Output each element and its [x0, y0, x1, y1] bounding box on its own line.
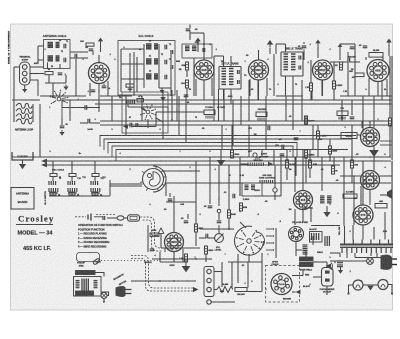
tc wires	[110, 183, 143, 185]
osc coil bank L10	[68, 181, 75, 185]
cap C14	[184, 221, 189, 223]
svg-text:MODEL 34 • 6 TUBE SUPERHET: MODEL 34 • 6 TUBE SUPERHET	[8, 30, 11, 64]
cap C12	[350, 117, 355, 119]
wires V2	[195, 79, 197, 96]
arrow cable end	[193, 287, 199, 292]
label yellow	[339, 227, 341, 236]
xfmr box T12	[242, 183, 262, 196]
rf coil L4	[146, 59, 152, 64]
bus y157	[12, 156, 391, 158]
tube V6 6B8	[361, 128, 380, 147]
osc bank boxes	[50, 192, 56, 195]
if2 trimmers	[299, 56, 301, 60]
ant coil wires	[38, 45, 44, 47]
caps cluster mid	[168, 199, 173, 201]
antenna coil L1	[48, 43, 54, 48]
bus y161	[42, 160, 391, 162]
rf coil L3	[146, 44, 152, 49]
cap C13b	[208, 206, 213, 208]
stage vertical wires	[39, 104, 41, 157]
pilot X1	[367, 258, 374, 265]
band switch S1	[140, 104, 156, 120]
ground rf	[161, 88, 163, 90]
rf coil wires	[143, 44, 145, 88]
tube V1 6A7	[89, 63, 110, 84]
tube V3 6SK7	[249, 60, 269, 80]
lamp I1	[353, 280, 363, 290]
res R26	[340, 62, 343, 70]
tone caps	[320, 196, 325, 203]
res R19	[343, 194, 357, 198]
antenna A2	[195, 38, 200, 45]
pickup base outline	[77, 253, 100, 262]
capacitor C3	[89, 49, 94, 51]
padder T6	[256, 112, 267, 117]
plug wires	[292, 275, 303, 277]
ground C15	[340, 267, 342, 270]
antenna A1	[98, 38, 103, 45]
bus y125	[100, 124, 392, 126]
light socket	[253, 153, 257, 157]
wires power	[330, 260, 367, 262]
fs wires	[228, 228, 234, 230]
capacitor C8	[363, 46, 368, 48]
wires S1	[147, 119, 149, 128]
label motor board	[76, 271, 96, 275]
osc coil box	[182, 44, 212, 58]
ground at terminal strip	[24, 85, 26, 89]
resistor R1	[45, 72, 53, 75]
wires outlet	[326, 262, 328, 268]
field coil	[303, 245, 308, 254]
wire y281	[131, 280, 196, 282]
wires V1	[89, 83, 91, 96]
bus y104	[95, 103, 392, 105]
band switch S3	[50, 90, 69, 105]
function switch S2	[235, 226, 265, 255]
wires midtop	[347, 52, 349, 96]
res R23 zigzag	[217, 287, 233, 293]
res R16	[231, 150, 234, 158]
fs contacts right	[266, 228, 272, 230]
if2 frame	[280, 52, 282, 76]
ground above if2	[267, 40, 273, 48]
capacitor C6	[186, 29, 191, 31]
volume control R20	[215, 234, 224, 243]
caps near V1	[102, 86, 107, 88]
ground C9	[59, 130, 64, 136]
trimmer C1	[64, 44, 66, 49]
bus y165	[42, 164, 340, 166]
res R32	[228, 210, 231, 218]
cap C9b	[88, 119, 90, 124]
tube V9 6SF5	[165, 233, 184, 252]
wires V7	[340, 175, 361, 177]
cap 250	[282, 145, 284, 150]
res R30	[286, 160, 289, 168]
antenna coil L2	[48, 56, 54, 61]
bus nest	[100, 136, 392, 161]
terminal strip TS1	[20, 62, 31, 85]
arrow up near V9	[158, 228, 164, 233]
wires v5	[391, 56, 393, 160]
osc coil L6	[185, 46, 190, 51]
motor core	[82, 279, 88, 292]
rf res R3	[126, 84, 134, 87]
cap C2b	[75, 54, 77, 59]
if2 secondary	[291, 54, 296, 70]
res R24	[235, 288, 247, 292]
ground mid	[220, 150, 222, 160]
antenna coil L1b	[56, 43, 60, 48]
wires strip right	[30, 66, 44, 68]
power transformer T13	[340, 240, 393, 254]
motor M1	[101, 293, 107, 299]
terminal strip TS2	[204, 267, 214, 297]
if2 primary	[284, 54, 289, 70]
loop wires	[13, 100, 15, 122]
res R8	[186, 62, 189, 70]
speaker cone	[326, 264, 332, 270]
chassis bracket	[12, 152, 33, 160]
plug P3	[381, 255, 393, 270]
wire if2	[285, 76, 287, 96]
if1 primary	[222, 69, 227, 85]
wires V9	[173, 252, 175, 263]
osc coil bank L9	[49, 181, 56, 185]
wire V2 top	[203, 33, 205, 60]
tuning capacitor gang	[140, 166, 166, 192]
bus v9 bottom	[152, 258, 212, 260]
side note text	[8, 30, 11, 64]
wire osc row	[49, 195, 110, 197]
res R14	[351, 160, 354, 168]
speaker jack	[387, 189, 393, 199]
bus arrow left	[41, 159, 47, 164]
connection horizontals	[40, 95, 86, 97]
res R33	[185, 254, 188, 262]
if1 frame	[218, 67, 220, 90]
osc verticals	[171, 90, 173, 121]
osc coil bank L11	[91, 181, 98, 185]
antenna coil box	[44, 40, 71, 69]
motor combs	[76, 281, 80, 288]
output trans box	[310, 232, 323, 243]
tube V2 6A8	[194, 60, 214, 80]
plug P1	[116, 286, 126, 297]
osc section box	[122, 92, 168, 133]
wires motor	[101, 292, 109, 296]
wires V6	[361, 121, 363, 128]
tone arm dashes	[101, 260, 160, 262]
bus y121	[100, 120, 392, 122]
wires bottom mid	[221, 262, 223, 287]
res R21	[195, 224, 198, 232]
chassis ground arrow	[22, 160, 24, 164]
pickup cartridge	[93, 258, 101, 265]
if1 secondary	[229, 69, 234, 85]
bus y100	[60, 99, 392, 101]
rf coil L5	[146, 74, 152, 79]
res R12	[305, 150, 308, 158]
ground tone	[326, 206, 328, 212]
ground lamps	[363, 284, 378, 286]
cap C15	[337, 261, 343, 263]
speaker socket J1	[289, 227, 304, 242]
res R9	[186, 80, 189, 88]
wires V8	[294, 209, 296, 225]
tube V5 6K6	[367, 60, 389, 82]
cap C13	[206, 234, 208, 239]
bus y107	[62, 107, 100, 109]
antenna A5	[386, 39, 392, 46]
if1 trimmers	[238, 70, 240, 74]
cap C10	[130, 123, 132, 128]
ground ant	[63, 85, 68, 91]
rf caps right	[171, 50, 173, 54]
antenna board box	[11, 188, 34, 210]
motor box	[74, 277, 102, 297]
lamp wires	[349, 285, 354, 293]
rf trimmers C4	[165, 45, 167, 50]
socket wires	[295, 242, 297, 250]
label motor supply	[76, 291, 94, 295]
cap C7b	[348, 58, 350, 63]
circle term	[273, 188, 277, 192]
res R15	[332, 166, 335, 174]
ground bottom mid	[185, 259, 187, 266]
ground osc box	[162, 92, 164, 97]
speaker plug P2	[271, 274, 292, 295]
label magnetic motor	[113, 273, 125, 281]
circle term2	[217, 209, 221, 213]
wires cluster	[239, 157, 241, 196]
res R11	[317, 131, 320, 139]
cap C9	[60, 126, 65, 128]
res R22	[205, 246, 208, 254]
res R31	[309, 160, 312, 168]
res comb R34	[127, 100, 135, 104]
choke comb	[325, 236, 329, 246]
padder T7	[337, 111, 348, 116]
wire v3	[249, 79, 251, 96]
antenna loop L0	[16, 103, 32, 123]
antenna coil L2b	[56, 56, 60, 61]
speaker plug box	[266, 266, 300, 303]
coil 600ohm	[260, 180, 275, 184]
tube V4 6SQ7	[313, 60, 333, 80]
lamp I2	[378, 280, 388, 290]
antenna A4	[338, 44, 343, 50]
wires V4	[310, 91, 312, 100]
resistor R6 box	[369, 53, 383, 58]
cap C11	[294, 138, 299, 140]
res R18	[389, 118, 392, 126]
arrow plug	[296, 290, 301, 295]
loop winding coil	[248, 163, 263, 167]
connector plug row	[117, 216, 124, 220]
grid cap V1	[98, 55, 100, 63]
mid wires2	[305, 116, 307, 125]
rf coil box	[118, 41, 175, 96]
tube V10 5Y3	[353, 205, 373, 225]
ground V6	[373, 147, 375, 151]
wire ant bottom	[45, 82, 66, 84]
wire pot	[218, 225, 220, 234]
padder T5	[204, 110, 215, 115]
antenna A3	[315, 40, 320, 47]
shielded cable	[75, 216, 86, 218]
res R13	[329, 146, 332, 154]
res R10	[305, 116, 308, 124]
pt wires	[344, 226, 346, 240]
tube V7 6F6	[361, 171, 380, 190]
res R5	[333, 81, 336, 89]
capacitor C7	[302, 46, 307, 48]
res R17 box	[341, 133, 357, 139]
res R7	[355, 73, 364, 77]
dashes bottom	[131, 256, 193, 289]
wire if1	[223, 56, 225, 67]
capacitor C2	[58, 73, 63, 75]
res R4	[310, 83, 313, 91]
field labels	[300, 257, 314, 261]
tube V8 6C5	[294, 191, 313, 210]
rotated note	[45, 191, 47, 205]
res R25	[375, 204, 387, 208]
resistor R2	[86, 43, 94, 46]
outlet J2	[322, 268, 334, 287]
